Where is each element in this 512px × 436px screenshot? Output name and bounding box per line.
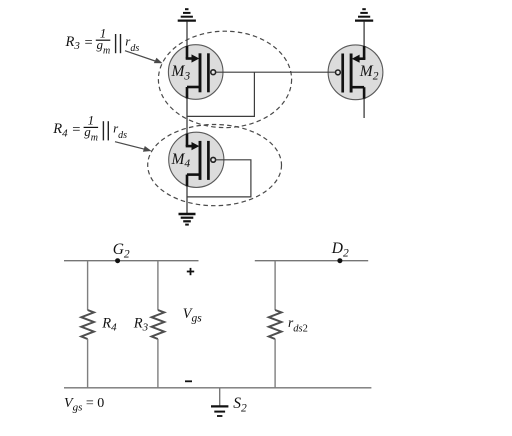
label M3 <box>171 63 191 82</box>
wire M4 diode feedback <box>187 160 251 197</box>
transistor M3 body circle <box>168 45 223 100</box>
label D2 <box>331 240 349 259</box>
transistor M3 internals <box>186 46 216 99</box>
supply symbol above M2 <box>355 9 373 20</box>
label M2 <box>359 63 379 82</box>
resistor R4 branch <box>81 261 94 388</box>
top rail right (D2 node) <box>255 260 368 262</box>
arrow R4 to M4 <box>115 142 152 152</box>
wire M3 diode feedback <box>187 72 254 116</box>
transistor M2 internals <box>336 46 366 99</box>
top rail left (G2 node) <box>64 260 199 262</box>
label M4 <box>171 151 191 170</box>
resistor R3 branch <box>152 261 165 388</box>
wire supply to M3 <box>186 22 188 51</box>
wire gate M3 to gate M2 <box>216 71 335 73</box>
dashed ellipse around M3 <box>158 31 291 127</box>
label G2 <box>113 241 130 260</box>
ground S2 <box>211 388 228 416</box>
transistor M4 internals <box>186 134 216 187</box>
label R3 <box>133 316 149 334</box>
wire M2 drain down <box>363 95 365 118</box>
label Vgs <box>183 306 202 325</box>
supply symbol above M3 <box>178 9 196 20</box>
bottom rail <box>64 387 371 389</box>
label S2 <box>233 395 247 414</box>
wire supply to M2 <box>363 22 365 51</box>
svg-text:Vgs = 0: Vgs = 0 <box>64 396 104 413</box>
wire M3 to M4 <box>186 94 188 137</box>
label rds2 <box>288 315 308 335</box>
transistor M4 body circle <box>169 132 224 187</box>
arrow R3 to M3 <box>125 51 163 64</box>
label R4 <box>101 316 117 334</box>
resistor rds2 branch <box>269 261 282 388</box>
plus sign <box>187 268 194 275</box>
node D2 dot <box>337 258 342 263</box>
node G2 dot <box>115 258 120 263</box>
transistor M2 body circle <box>328 45 383 100</box>
label R3 formula <box>65 25 140 56</box>
svg-text:=: = <box>85 35 93 51</box>
label Vgs = 0 <box>64 396 104 413</box>
dashed ellipse around M4 <box>148 125 282 206</box>
minus sign <box>185 380 192 382</box>
svg-text:=: = <box>72 122 80 138</box>
label R4 formula <box>52 113 127 144</box>
ground symbol below M4 <box>179 214 196 225</box>
wire M4 to ground <box>186 182 188 214</box>
